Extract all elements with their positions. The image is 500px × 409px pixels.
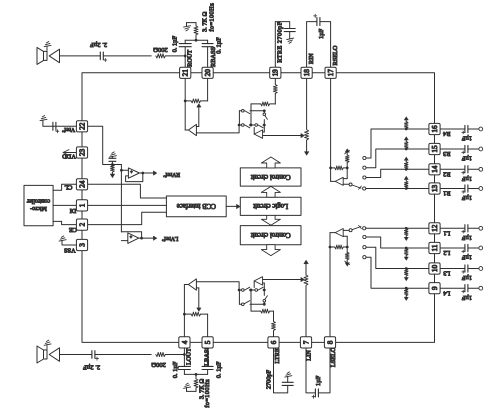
svg-text:VSS: VSS <box>64 247 76 254</box>
svg-text:9: 9 <box>431 286 439 290</box>
svg-text:1µF: 1µF <box>461 175 472 182</box>
svg-text:R1: R1 <box>443 190 450 197</box>
svg-text:8: 8 <box>326 340 334 344</box>
svg-text:16: 16 <box>431 125 439 133</box>
svg-text:23: 23 <box>78 149 86 157</box>
svg-text:5: 5 <box>204 340 212 344</box>
svg-text:LSELO: LSELO <box>330 347 337 367</box>
svg-text:LBASS: LBASS <box>203 346 210 366</box>
svg-text:L1: L1 <box>443 229 450 236</box>
svg-text:1: 1 <box>78 203 86 207</box>
svg-text:1µF: 1µF <box>461 194 472 201</box>
svg-text:11: 11 <box>431 244 439 251</box>
svg-text:Logic circuit: Logic circuit <box>253 202 288 209</box>
svg-text:1µF: 1µF <box>461 294 472 301</box>
svg-text:LOUT: LOUT <box>186 348 193 365</box>
svg-text:2: 2 <box>78 222 86 226</box>
svg-text:10: 10 <box>431 265 439 273</box>
svg-text:6: 6 <box>270 340 278 344</box>
svg-text:L4: L4 <box>442 289 450 296</box>
svg-text:VDD: VDD <box>62 153 76 160</box>
svg-text:7: 7 <box>302 340 310 344</box>
svg-text:DI: DI <box>70 207 77 214</box>
svg-text:ROUT: ROUT <box>187 50 194 67</box>
svg-text:20: 20 <box>204 69 212 77</box>
svg-text:CCB interface: CCB interface <box>177 202 216 209</box>
svg-text:22: 22 <box>78 122 86 130</box>
svg-text:24: 24 <box>78 180 86 188</box>
svg-text:0. 1µF: 0. 1µF <box>216 361 223 378</box>
svg-text:1µF: 1µF <box>461 155 472 162</box>
svg-text:21: 21 <box>182 69 190 77</box>
svg-text:13: 13 <box>431 185 439 193</box>
svg-text:Control circuit: Control circuit <box>251 173 291 180</box>
svg-text:R2: R2 <box>443 170 450 177</box>
svg-text:+: + <box>130 235 133 240</box>
svg-text:RIN: RIN <box>308 53 315 64</box>
svg-text:3: 3 <box>78 243 86 247</box>
svg-text:CE: CE <box>69 226 77 233</box>
svg-text:L2: L2 <box>443 249 450 256</box>
svg-text:19: 19 <box>272 69 280 77</box>
svg-text:1µF: 1µF <box>461 234 472 241</box>
svg-text:15: 15 <box>431 145 439 153</box>
svg-text:Vref’: Vref’ <box>62 126 76 133</box>
svg-text:1µF: 1µF <box>315 375 322 386</box>
svg-text:RBASS: RBASS <box>210 47 217 67</box>
svg-text:+: + <box>130 170 133 175</box>
svg-text:fo=100Hz: fo=100Hz <box>209 3 216 32</box>
svg-text:1µF: 1µF <box>461 254 472 261</box>
svg-text:200Ω: 200Ω <box>153 46 168 53</box>
svg-text:controller: controller <box>27 197 50 203</box>
svg-text:200Ω: 200Ω <box>151 361 166 368</box>
svg-text:0. 1µF: 0. 1µF <box>172 35 179 52</box>
svg-text:4: 4 <box>181 340 189 344</box>
svg-text:Micro-: Micro- <box>30 205 47 211</box>
svg-text:LTRE: LTRE <box>274 348 281 363</box>
svg-text:CL: CL <box>64 183 72 190</box>
svg-text:Control circuit: Control circuit <box>251 231 291 238</box>
svg-text:fo=100Hz: fo=100Hz <box>204 379 211 408</box>
svg-text:RTRE 2700pF: RTRE 2700pF <box>277 21 284 63</box>
svg-text:LVref’: LVref’ <box>161 235 178 242</box>
svg-text:17: 17 <box>327 69 335 77</box>
svg-text:2700pF: 2700pF <box>266 369 273 389</box>
svg-text:L3: L3 <box>443 270 450 277</box>
svg-text:LIN: LIN <box>306 350 313 361</box>
svg-text:R4: R4 <box>442 130 450 137</box>
svg-text:RVref’: RVref’ <box>163 171 180 178</box>
svg-text:1µF: 1µF <box>461 274 472 281</box>
svg-text:RSELO: RSELO <box>332 45 339 65</box>
svg-text:1µF: 1µF <box>461 135 472 142</box>
svg-text:2. 2µF: 2. 2µF <box>90 41 107 48</box>
svg-text:0. 1µF: 0. 1µF <box>172 361 179 378</box>
svg-text:12: 12 <box>431 224 439 232</box>
svg-text:18: 18 <box>303 69 311 77</box>
svg-text:14: 14 <box>431 165 439 173</box>
svg-text:1µF: 1µF <box>318 28 325 39</box>
svg-text:R3: R3 <box>443 150 450 157</box>
svg-text:2. 2µF: 2. 2µF <box>83 364 100 371</box>
svg-text:3. 7K Ω: 3. 7K Ω <box>202 11 209 32</box>
